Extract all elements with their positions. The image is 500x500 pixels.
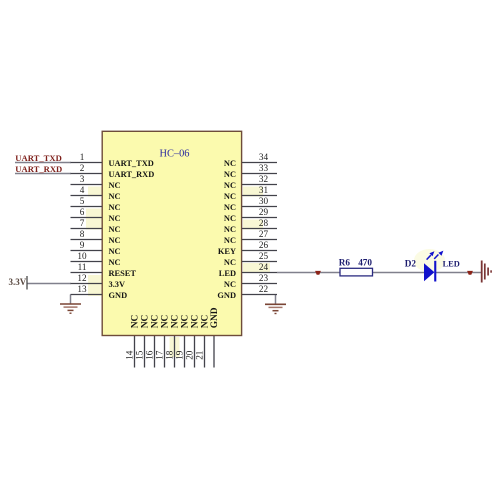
svg-text:11: 11 xyxy=(78,262,87,272)
svg-text:15: 15 xyxy=(135,350,145,360)
svg-text:8: 8 xyxy=(80,229,85,239)
svg-text:R6: R6 xyxy=(339,257,351,267)
svg-text:NC: NC xyxy=(224,236,236,245)
svg-text:NC: NC xyxy=(224,192,236,201)
svg-text:NC: NC xyxy=(181,315,191,329)
svg-text:29: 29 xyxy=(259,207,269,217)
svg-text:7: 7 xyxy=(80,218,85,228)
svg-text:6: 6 xyxy=(80,207,85,217)
svg-text:NC: NC xyxy=(109,258,121,267)
svg-text:28: 28 xyxy=(259,218,269,228)
svg-text:NC: NC xyxy=(109,247,121,256)
svg-text:NC: NC xyxy=(191,315,201,329)
svg-text:9: 9 xyxy=(80,240,85,250)
svg-text:NC: NC xyxy=(224,181,236,190)
svg-text:3: 3 xyxy=(80,174,85,184)
svg-text:24: 24 xyxy=(259,262,269,272)
svg-text:30: 30 xyxy=(259,196,269,206)
svg-text:NC: NC xyxy=(171,315,181,329)
svg-text:23: 23 xyxy=(259,273,269,283)
svg-text:20: 20 xyxy=(185,350,195,360)
svg-text:14: 14 xyxy=(125,350,135,360)
svg-text:HC–06: HC–06 xyxy=(159,149,189,160)
svg-text:26: 26 xyxy=(259,240,269,250)
svg-text:12: 12 xyxy=(77,273,87,283)
svg-text:3.3V: 3.3V xyxy=(109,280,126,289)
svg-text:18: 18 xyxy=(165,350,175,360)
svg-text:21: 21 xyxy=(195,350,205,360)
svg-text:D2: D2 xyxy=(405,259,417,269)
svg-text:NC: NC xyxy=(109,214,121,223)
svg-text:27: 27 xyxy=(259,229,269,239)
svg-text:NC: NC xyxy=(109,225,121,234)
svg-text:NC: NC xyxy=(224,225,236,234)
svg-text:GND: GND xyxy=(217,291,236,300)
svg-text:NC: NC xyxy=(109,203,121,212)
svg-text:GND: GND xyxy=(109,291,128,300)
svg-text:32: 32 xyxy=(259,174,269,184)
svg-text:KEY: KEY xyxy=(218,247,236,256)
svg-text:22: 22 xyxy=(259,284,269,294)
svg-text:NC: NC xyxy=(224,214,236,223)
svg-text:NC: NC xyxy=(224,258,236,267)
svg-text:1: 1 xyxy=(80,152,85,162)
svg-text:470: 470 xyxy=(358,257,372,267)
svg-text:19: 19 xyxy=(175,350,185,360)
svg-text:16: 16 xyxy=(145,350,155,360)
svg-text:33: 33 xyxy=(259,163,269,173)
svg-text:17: 17 xyxy=(155,350,165,360)
svg-text:34: 34 xyxy=(259,152,269,162)
svg-text:NC: NC xyxy=(224,170,236,179)
svg-text:LED: LED xyxy=(219,269,236,278)
svg-text:LED: LED xyxy=(443,259,460,268)
svg-text:UART_TXD: UART_TXD xyxy=(109,159,154,168)
svg-text:2: 2 xyxy=(80,163,85,173)
svg-text:UART_RXD: UART_RXD xyxy=(15,164,62,174)
svg-text:NC: NC xyxy=(224,203,236,212)
svg-text:4: 4 xyxy=(80,185,85,195)
svg-text:UART_TXD: UART_TXD xyxy=(15,153,62,163)
svg-text:NC: NC xyxy=(109,181,121,190)
svg-text:NC: NC xyxy=(141,315,151,329)
svg-text:25: 25 xyxy=(259,251,269,261)
svg-text:NC: NC xyxy=(109,192,121,201)
svg-text:NC: NC xyxy=(161,315,171,329)
svg-text:NC: NC xyxy=(131,315,141,329)
svg-text:NC: NC xyxy=(224,159,236,168)
svg-text:13: 13 xyxy=(77,284,87,294)
svg-text:UART_RXD: UART_RXD xyxy=(109,170,155,179)
svg-text:5: 5 xyxy=(80,196,85,206)
svg-text:31: 31 xyxy=(259,185,269,195)
svg-text:RESET: RESET xyxy=(109,269,137,278)
svg-text:NC: NC xyxy=(151,315,161,329)
svg-text:10: 10 xyxy=(77,251,87,261)
svg-text:NC: NC xyxy=(109,236,121,245)
svg-text:NC: NC xyxy=(224,280,236,289)
svg-text:3.3V: 3.3V xyxy=(9,277,27,287)
svg-text:GND: GND xyxy=(210,307,220,328)
svg-text:NC: NC xyxy=(201,315,211,329)
